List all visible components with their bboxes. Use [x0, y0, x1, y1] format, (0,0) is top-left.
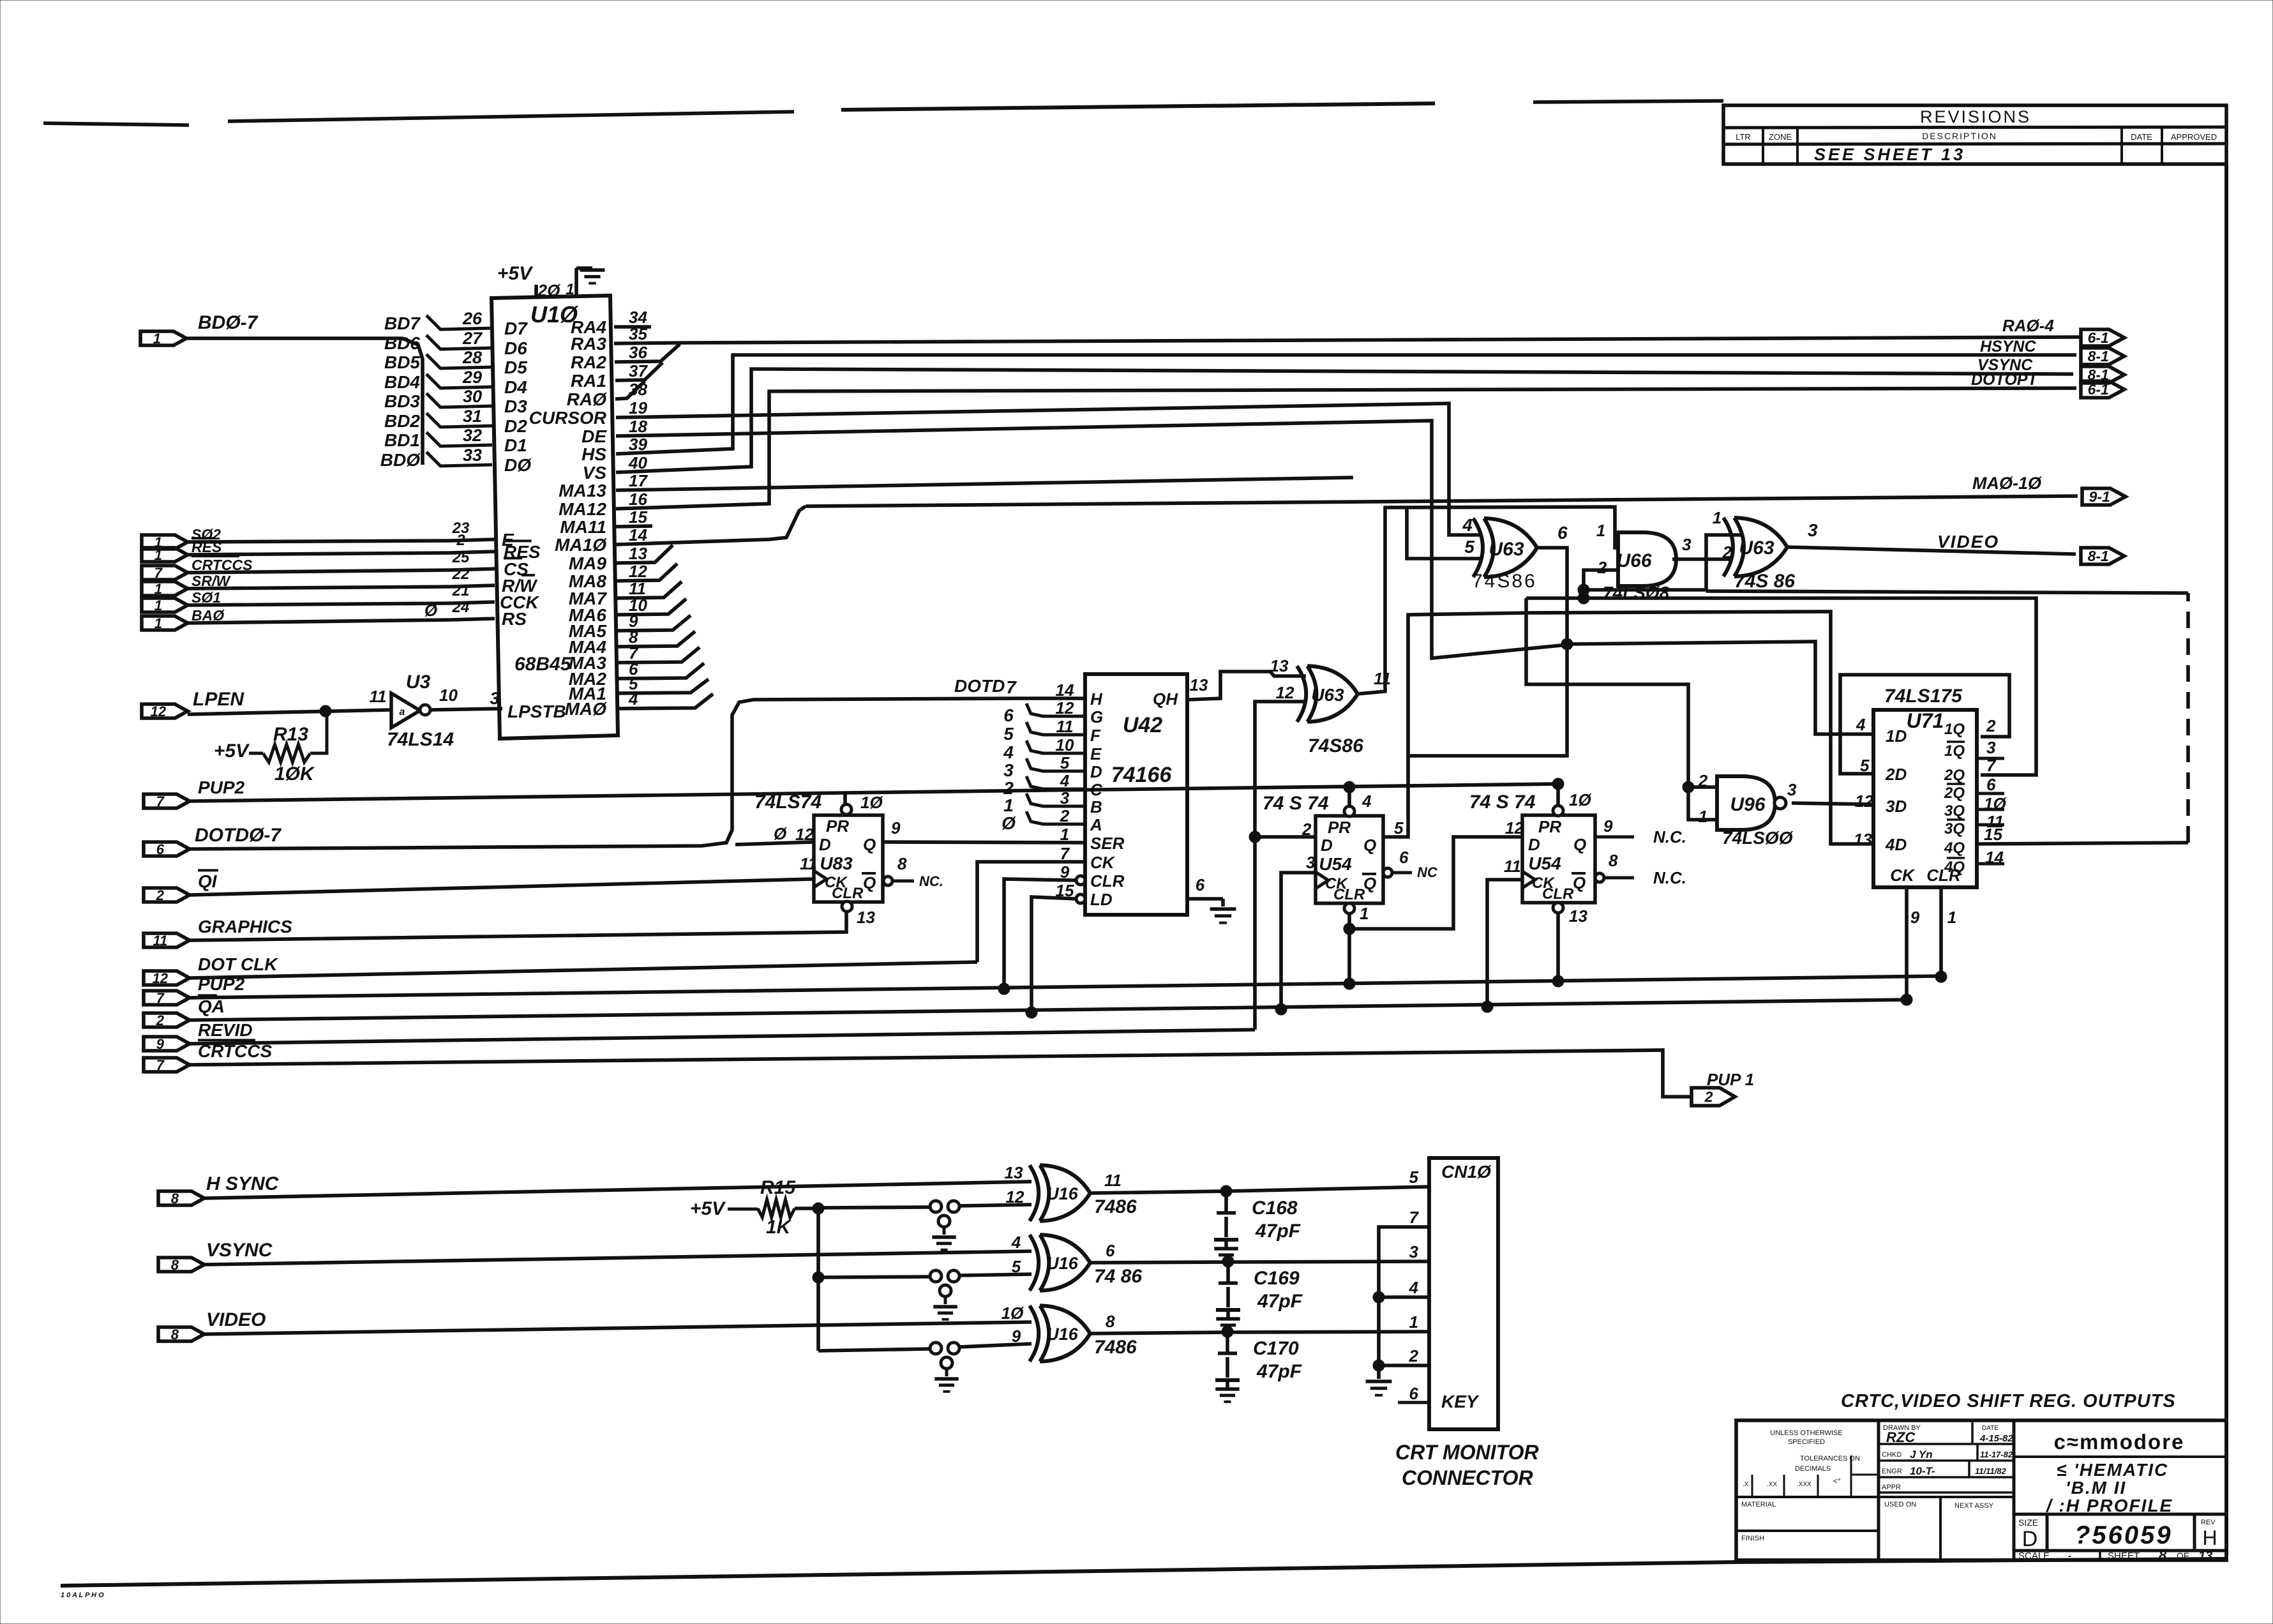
pin 12 3D of U71: [1855, 792, 1873, 811]
svg-text:U63: U63: [1739, 538, 1774, 559]
pin 36 RA2 of U10: [571, 343, 647, 372]
svg-text:PR: PR: [826, 816, 849, 836]
pin 12 G of U42: [1056, 698, 1104, 726]
pin 15 LD of U42: [1056, 881, 1113, 909]
pin 11 3Qbar of U71 stub: [1977, 812, 2004, 831]
svg-text:13: 13: [1854, 830, 1872, 849]
svg-text:5: 5: [1012, 1257, 1021, 1276]
svg-text:U3: U3: [406, 672, 431, 693]
svg-text:11: 11: [1056, 717, 1074, 736]
svg-text:1: 1: [1409, 1312, 1418, 1332]
title text schematic CBM II high profile: [2045, 1460, 2173, 1515]
output arrow PUP1 to sheet 2: [1692, 1070, 1754, 1106]
wire U96 output 3 to U71 3D: [1792, 803, 1873, 804]
pin 10 3Q of U71 stub: [1977, 794, 2007, 813]
svg-text:QI: QI: [198, 871, 218, 891]
svg-text:1: 1: [1596, 521, 1605, 540]
svg-text:8: 8: [1106, 1312, 1115, 1331]
svg-text:7: 7: [154, 565, 163, 581]
pin 32 D1 of U10 with net label BD1: [384, 426, 527, 455]
wire MA3 merge into MA bus: [616, 647, 700, 663]
capacitor C168 47pF: [1214, 1191, 1301, 1261]
svg-text:1: 1: [1947, 908, 1956, 927]
svg-text:2: 2: [1409, 1346, 1419, 1365]
svg-text:11/11/82: 11/11/82: [1975, 1466, 2006, 1476]
svg-text:MATERIAL: MATERIAL: [1741, 1501, 1776, 1508]
pin 2 RES of U10: [456, 532, 541, 562]
pin 16 MA12 of U10: [559, 490, 647, 519]
svg-text:13: 13: [1569, 906, 1587, 926]
wire branch down to U96 inputs: [1526, 598, 1717, 820]
net label VSYNC top: [1977, 356, 2033, 374]
wire CN10 ground bus pins 7 4 2: [1366, 1227, 1429, 1395]
svg-text:G: G: [1090, 707, 1103, 726]
output arrow 8-1 for HSYNC: [2081, 348, 2124, 365]
svg-text:LPEN: LPEN: [193, 689, 244, 710]
svg-text:12: 12: [795, 825, 814, 844]
pin 6 2Qbar of U71 stub: [1977, 775, 2004, 794]
svg-text:11: 11: [800, 854, 817, 873]
svg-text:74LS14: 74LS14: [387, 729, 454, 750]
svg-text:.X: .X: [1743, 1481, 1749, 1488]
svg-text:10: 10: [439, 686, 458, 705]
svg-text:BDØ-7: BDØ-7: [198, 312, 259, 333]
svg-text:BD4: BD4: [384, 372, 420, 392]
svg-text:SIZE: SIZE: [2018, 1517, 2038, 1528]
svg-text:U16: U16: [1046, 1325, 1079, 1344]
XOR gate U16b 7486: [1011, 1233, 1143, 1291]
pin 2 of CN10: [1409, 1346, 1419, 1365]
svg-text:B: B: [1090, 797, 1102, 816]
pin 40 VS of U10: [583, 453, 648, 483]
svg-text:5: 5: [1060, 753, 1070, 772]
wire CRTCCS long line to PUP1: [190, 1050, 1692, 1097]
title block small labels: [1741, 1424, 2013, 1542]
svg-text:≤ 'HEMATIC: ≤ 'HEMATIC: [2057, 1460, 2168, 1480]
wire sheet right border: [2224, 164, 2228, 1556]
svg-text:8: 8: [171, 1257, 179, 1273]
pin 7 CK of U42: [1060, 844, 1116, 872]
resistor R15 1K pullup: [690, 1177, 818, 1238]
label CRT MONITOR CONNECTOR: [1395, 1441, 1539, 1489]
svg-text:CN1Ø: CN1Ø: [1441, 1162, 1492, 1182]
pin 14 MA1&#216; of U10: [555, 525, 647, 555]
pin 12 D of U83 with DOTD0 label: [774, 824, 814, 844]
svg-text:a: a: [400, 707, 405, 718]
wire MA11 stub pin 15: [616, 526, 652, 527]
svg-text:PUP2: PUP2: [198, 778, 245, 797]
svg-text:5: 5: [1409, 1168, 1419, 1187]
pin 4 of CN10: [1409, 1278, 1419, 1297]
pin 34 RA4 of U10: [571, 308, 647, 337]
svg-text:74 86: 74 86: [1094, 1266, 1142, 1287]
svg-text:10-T-: 10-T-: [1910, 1465, 1935, 1477]
wire U42 QH to U63c input 13: [1189, 672, 1306, 700]
svg-text:74 S 74: 74 S 74: [1263, 793, 1329, 814]
svg-text:3: 3: [1306, 853, 1316, 872]
pin 33 D&#216; of U10 with net label BD&#216;: [380, 446, 532, 475]
output arrow 9-1 for MA0-10: [2082, 488, 2126, 505]
svg-text:47pF: 47pF: [1257, 1291, 1303, 1312]
pin 8 MA4 of U10: [569, 628, 638, 657]
XOR gate U16a 7486: [1005, 1163, 1137, 1221]
svg-text:D5: D5: [504, 357, 527, 377]
pin 4 C of U42: [1060, 771, 1103, 799]
svg-text:1Ø: 1Ø: [860, 793, 883, 812]
svg-text:D: D: [1321, 836, 1333, 855]
pin 13 QH of U42: [1153, 675, 1208, 709]
svg-text:<°: <°: [1833, 1477, 1841, 1485]
svg-text:14: 14: [1056, 680, 1074, 700]
svg-text:VIDEO: VIDEO: [206, 1309, 266, 1330]
pin 18 DE of U10: [581, 417, 647, 446]
svg-text:3Q: 3Q: [1944, 802, 1965, 820]
svg-text:CRTC,VIDEO SHIFT REG. OUTPUTS: CRTC,VIDEO SHIFT REG. OUTPUTS: [1841, 1391, 2176, 1411]
svg-text:R15: R15: [760, 1177, 796, 1198]
svg-text:UNLESS OTHERWISE: UNLESS OTHERWISE: [1770, 1429, 1843, 1437]
wire U66 input 2 from U71 2Q net: [1578, 570, 1618, 604]
svg-text:2: 2: [1060, 806, 1070, 825]
wire MA13 from U10 pin 17: [616, 477, 1353, 490]
pin 10 PR of U54b from PUP2: [1552, 778, 1592, 816]
svg-text:2Q: 2Q: [1944, 785, 1965, 802]
wire bus RA0-4 to right edge: [680, 337, 2080, 343]
wire MA8 merge into MA bus: [616, 564, 677, 581]
svg-text:6: 6: [1003, 705, 1014, 725]
wire DOTD bit 5 into U42: [1003, 722, 1085, 744]
wire HSYNC to U16a input 13: [204, 1182, 1031, 1198]
svg-text:2D: 2D: [1885, 765, 1907, 784]
node junction C168: [1220, 1185, 1232, 1197]
svg-text:11: 11: [153, 933, 167, 949]
svg-text:DATE: DATE: [1982, 1425, 1999, 1432]
wire QI to U83 CK: [190, 879, 814, 895]
svg-text:U96: U96: [1730, 794, 1765, 815]
svg-text:D3: D3: [504, 396, 527, 416]
IC U42 74166 shift register outline: [1085, 674, 1187, 915]
svg-text:APPR: APPR: [1882, 1484, 1901, 1491]
svg-text:6-1: 6-1: [2088, 329, 2109, 346]
svg-text:MA12: MA12: [559, 499, 606, 519]
svg-text:11: 11: [1504, 857, 1521, 876]
pin 1 of CN10: [1409, 1312, 1418, 1332]
svg-text:2Q: 2Q: [1944, 767, 1965, 784]
svg-text:U63: U63: [1311, 685, 1344, 705]
svg-text:U63: U63: [1489, 539, 1524, 560]
ground jumper stub row 2: [933, 1285, 957, 1319]
wire CRTCCS to U10 pin: [188, 569, 495, 573]
svg-text:C170: C170: [1253, 1338, 1299, 1359]
input arrow CRTCCS y1668: [144, 1040, 272, 1073]
pin 4 PR of U54a: [1344, 781, 1372, 816]
svg-text:USED ON: USED ON: [1884, 1501, 1916, 1508]
svg-text:c≈mmodore: c≈mmodore: [2054, 1430, 2185, 1454]
svg-text:9: 9: [891, 818, 901, 838]
svg-text:Q: Q: [863, 873, 876, 892]
input arrow S01 to U10: [142, 589, 221, 613]
svg-text:CK: CK: [1090, 853, 1116, 872]
NAND gate U96 74LS00: [1698, 771, 1797, 848]
svg-text:7: 7: [1986, 756, 1997, 775]
wire U66 output 3 to U63b input 2: [1672, 557, 1730, 561]
svg-text:RAØ: RAØ: [567, 389, 607, 409]
ground jumper stub row 1: [932, 1215, 956, 1250]
svg-text:6: 6: [1399, 848, 1409, 867]
svg-text:7486: 7486: [1094, 1196, 1137, 1217]
svg-text:4D: 4D: [1885, 835, 1907, 854]
svg-text:RAØ-4: RAØ-4: [2002, 316, 2054, 335]
wire DE from U10 pin 18 to node: [616, 421, 1567, 658]
net label RA0-4: [2002, 316, 2054, 335]
power +5V pin 20 of U10: [497, 263, 561, 300]
wire MA9 merge into MA bus: [616, 545, 673, 563]
wire SR/W to U10 pin: [188, 585, 495, 589]
svg-text:47pF: 47pF: [1255, 1221, 1301, 1242]
pin 10 E of U42: [1056, 735, 1102, 763]
svg-text:13: 13: [1190, 675, 1208, 695]
svg-text:'B.M II: 'B.M II: [2066, 1478, 2126, 1498]
svg-text:11: 11: [1104, 1171, 1121, 1190]
pin 14 H of U42: [1056, 680, 1103, 709]
size box D: [2018, 1517, 2038, 1551]
svg-text:28: 28: [462, 348, 482, 367]
input arrow DOTD0-7 from sheet 6: [144, 825, 281, 857]
pin 9 Q of U83 wire to U42 SER: [883, 818, 1085, 843]
svg-text:2: 2: [1722, 543, 1732, 562]
svg-text:1Ø: 1Ø: [1001, 1304, 1024, 1323]
svg-text:2: 2: [156, 1012, 165, 1028]
svg-text:26: 26: [462, 309, 483, 328]
input arrow PUP2 y1563: [144, 974, 245, 1006]
wire pullup branch to U16a input 12 with jumper: [818, 1201, 1031, 1212]
output arrow 8-1 for VSYNC: [2081, 366, 2124, 383]
node junction C169: [1222, 1256, 1234, 1267]
svg-text:Q: Q: [1363, 874, 1376, 893]
svg-text:7: 7: [156, 990, 165, 1006]
pin 2 A of U42: [1060, 806, 1102, 834]
pin 11 MA7 of U10: [569, 579, 646, 608]
svg-text:H: H: [2202, 1526, 2217, 1549]
pin 2 1Q of U71: [1986, 716, 1996, 735]
svg-text:8-1: 8-1: [2088, 348, 2109, 365]
wire MA7 merge into MA bus: [616, 582, 682, 598]
svg-text:MA9: MA9: [569, 553, 607, 573]
svg-text:CLR: CLR: [1542, 885, 1574, 903]
svg-text:2: 2: [1704, 1088, 1713, 1105]
svg-text:Q: Q: [1573, 835, 1586, 854]
svg-text:GRAPHICS: GRAPHICS: [198, 917, 292, 936]
svg-text:3: 3: [1808, 520, 1818, 540]
flip-flop U54a 74S74 outline: [1263, 793, 1383, 903]
svg-text:DESCRIPTION: DESCRIPTION: [1922, 131, 1997, 141]
pin 39 HS of U10: [581, 435, 647, 464]
svg-text:1: 1: [1360, 904, 1369, 923]
pin 2 D of U54a from REVID: [1302, 820, 1312, 839]
svg-text:-: -: [2068, 1551, 2071, 1561]
title block: [1736, 1420, 2226, 1560]
svg-text:1: 1: [154, 581, 162, 597]
svg-text:16: 16: [629, 490, 647, 509]
pin 13 4D of U71 from U54a Q net: [1529, 612, 1873, 849]
pin 13 CLR of U54b: [1552, 903, 1587, 987]
svg-text:DOT CLK: DOT CLK: [198, 954, 278, 974]
svg-text:4-15-82: 4-15-82: [1979, 1433, 2013, 1444]
svg-text:Ø: Ø: [424, 601, 439, 620]
svg-text:17: 17: [629, 471, 648, 490]
input arrow DOT CLK y1532: [144, 954, 278, 986]
pin 9 MA5 of U10: [569, 612, 638, 641]
svg-text:10: 10: [1056, 735, 1074, 755]
svg-text:74LSØØ: 74LSØØ: [1722, 828, 1794, 848]
svg-text:D: D: [1528, 835, 1540, 854]
svg-text:R13: R13: [273, 724, 308, 745]
pin 3 of CN10: [1409, 1242, 1419, 1261]
input arrow VSYNC from sheet 8: [158, 1240, 273, 1273]
svg-text:12: 12: [1855, 792, 1873, 811]
svg-text:KEY: KEY: [1441, 1392, 1480, 1411]
svg-text:27: 27: [462, 329, 483, 348]
pin 30 D3 of U10 with net label BD3: [384, 387, 527, 416]
svg-text:9: 9: [1910, 908, 1920, 927]
wire U16a output 11 to CN10 pin 5: [1090, 1187, 1429, 1193]
svg-text:NEXT ASSY: NEXT ASSY: [1954, 1502, 1994, 1510]
pin 8 Qbar of U83 not connected: [883, 854, 943, 889]
pin 3 B of U42: [1060, 788, 1102, 816]
svg-text:MA11: MA11: [560, 517, 606, 537]
wire MA6 merge into MA bus: [616, 599, 686, 615]
svg-text:7: 7: [1006, 677, 1017, 697]
wire VSYNC to U16b input 4: [204, 1251, 1031, 1265]
wire MA10 pin 14 to MA0-10 bus jog: [616, 506, 806, 545]
svg-text:12: 12: [1006, 1187, 1024, 1207]
svg-text:U54: U54: [1319, 854, 1352, 874]
svg-text:12: 12: [1276, 683, 1294, 702]
svg-text:+5V: +5V: [214, 741, 250, 762]
svg-text:NC.: NC.: [919, 873, 943, 889]
svg-text:H SYNC: H SYNC: [206, 1173, 280, 1194]
wire sheet top border segment 2: [228, 112, 794, 121]
svg-text:U66: U66: [1616, 550, 1651, 571]
wire sheet bottom border: [61, 1559, 2226, 1586]
wire U54a CLR junction to U54b D: [1349, 837, 1522, 929]
svg-text:14: 14: [629, 525, 647, 545]
svg-text:SPECIFIED: SPECIFIED: [1788, 1438, 1825, 1446]
wire U42 CLR to PUP2 line: [998, 879, 1076, 995]
svg-text:2: 2: [1597, 558, 1607, 577]
label CRTC VIDEO SHIFT REG OUTPUTS: [1841, 1391, 2176, 1411]
svg-text:2Ø: 2Ø: [537, 281, 561, 300]
wire GRAPHICS long line to U83 CLR: [190, 912, 846, 940]
svg-text:15: 15: [1984, 825, 2002, 844]
AND gate U66 74LS08: [1596, 521, 1692, 603]
svg-text:68B45: 68B45: [514, 654, 572, 675]
pin 3 CK of U54a from DOT CLK: [1275, 853, 1316, 1015]
svg-text:9: 9: [156, 1036, 165, 1052]
svg-text:4: 4: [1060, 771, 1070, 790]
svg-text:D1: D1: [504, 435, 527, 455]
ground jumper stub row 3: [934, 1357, 958, 1392]
wire U66 input 1 from 74S86 net: [1615, 546, 1618, 550]
pin 5 2D of U71 from 1Q loop: [1840, 675, 2009, 775]
pin 1 CLR of U54a: [1344, 903, 1369, 989]
wire DOTD bit 1 into U42: [1003, 793, 1085, 815]
svg-text:PR: PR: [1538, 817, 1561, 836]
svg-text:VIDEO: VIDEO: [1937, 532, 1999, 552]
pin 19 CURSOR of U10: [529, 398, 648, 428]
svg-text:DØ: DØ: [504, 455, 532, 475]
wire U16c output 8 to CN10 pin 1: [1090, 1332, 1429, 1334]
svg-text:3: 3: [1682, 535, 1692, 554]
wire MA2 merge into MA bus: [616, 663, 704, 679]
svg-text:33: 33: [463, 446, 482, 465]
svg-text:5: 5: [1003, 724, 1014, 744]
svg-text:74 S 74: 74 S 74: [1469, 792, 1536, 813]
svg-text:CRT MONITOR: CRT MONITOR: [1395, 1441, 1539, 1464]
pin 31 D2 of U10 with net label BD2: [384, 407, 527, 436]
svg-text:8: 8: [171, 1327, 179, 1342]
pin 9 CK of U71 from DOT CLK: [1901, 887, 1920, 1005]
wire RA3 pin 35 to RA0-4 bus: [614, 343, 680, 343]
svg-text:DECIMALS: DECIMALS: [1795, 1465, 1831, 1473]
wire BA0 to U10 pin: [188, 619, 495, 623]
wire S02 to U10 pin: [188, 539, 495, 542]
svg-text:7: 7: [1409, 1208, 1420, 1227]
svg-text:VSYNC: VSYNC: [206, 1240, 273, 1261]
svg-text:D2: D2: [504, 416, 527, 436]
svg-text:D: D: [2022, 1527, 2038, 1551]
pin 11 CK of U83: [800, 854, 817, 873]
pin 5 D of U42: [1060, 753, 1102, 781]
svg-text:CONNECTOR: CONNECTOR: [1402, 1466, 1533, 1489]
svg-text:6: 6: [1106, 1241, 1115, 1260]
pin 12 D of U54b: [1505, 818, 1524, 838]
pin 25 CS of U10: [452, 549, 529, 579]
pin 15 MA11 of U10: [560, 507, 647, 537]
pin 4 MA&#216; of U10: [565, 689, 638, 719]
wire RA4 stub pin 34: [614, 325, 651, 329]
XOR gate U16c 7486: [1001, 1304, 1137, 1362]
pin 3 LPSTB of U10: [490, 689, 566, 721]
svg-text:Q: Q: [863, 835, 876, 854]
svg-text:CLR: CLR: [1333, 886, 1365, 903]
svg-text:3: 3: [1409, 1242, 1419, 1261]
svg-text:74S86: 74S86: [1472, 571, 1537, 592]
pin 3 1Qbar of U71 stub: [1977, 738, 2004, 758]
pin 5 of CN10: [1409, 1168, 1419, 1187]
svg-text:2: 2: [156, 887, 165, 903]
svg-text:E: E: [1090, 744, 1102, 763]
pin 21 CCK of U10: [452, 582, 540, 612]
svg-text:11-17-82: 11-17-82: [1980, 1450, 2013, 1459]
svg-text:1: 1: [154, 598, 162, 613]
svg-text:.XX: .XX: [1767, 1481, 1777, 1488]
svg-text:12: 12: [1056, 698, 1074, 718]
svg-text:1Q: 1Q: [1944, 721, 1965, 738]
svg-text:1Ø: 1Ø: [1569, 790, 1592, 809]
svg-text:LD: LD: [1090, 890, 1113, 909]
wire U42 CK from DOT CLK: [977, 862, 1085, 962]
svg-text:CK: CK: [1890, 866, 1916, 885]
svg-text:4: 4: [1003, 742, 1014, 762]
svg-text:MAØ-1Ø: MAØ-1Ø: [1972, 474, 2042, 493]
wire REVID long line: [190, 1030, 1255, 1044]
net label MA0-10: [1972, 474, 2042, 493]
pin 7 2Q of U71: [1986, 756, 1997, 775]
svg-text:74S 86: 74S 86: [1734, 571, 1795, 592]
wire U16b output 6 to CN10 pin 3: [1090, 1261, 1429, 1263]
wire sheet top border segment 3: [841, 103, 1435, 110]
wire node to U71 1D: [1567, 642, 1873, 734]
